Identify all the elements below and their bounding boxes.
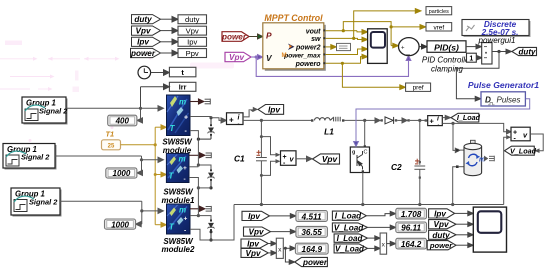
display 4.511 xyxy=(296,211,328,222)
wire v to Vpv goto xyxy=(296,156,312,161)
goto rect pref xyxy=(406,83,431,92)
svg-text:power: power xyxy=(302,258,328,267)
svg-text:V_Load: V_Load xyxy=(335,244,365,253)
svg-text:+: + xyxy=(184,115,188,122)
svg-text:Vpv: Vpv xyxy=(186,26,199,35)
wire group1c to module2 Ir xyxy=(60,201,163,227)
goto tag V_Load xyxy=(505,146,535,155)
wire V_Load to product2 xyxy=(367,246,380,251)
svg-text:pref: pref xyxy=(413,85,424,92)
goto tag Ipv xyxy=(258,105,284,115)
svg-text:Vpv: Vpv xyxy=(229,53,244,62)
svg-text:Signal 2: Signal 2 xyxy=(21,153,50,162)
goto tag Vpv xyxy=(313,154,340,164)
From tag Ipv row1 xyxy=(242,211,270,220)
wire duty to scope2 xyxy=(456,233,473,238)
voltage measurement VM1 xyxy=(260,135,281,177)
signal builder Group1 c xyxy=(11,188,62,217)
From tag I_Load row1 xyxy=(332,211,366,220)
svg-text:clamping: clamping xyxy=(431,65,464,74)
svg-text:Ipv: Ipv xyxy=(247,240,259,249)
svg-text:C: C xyxy=(364,150,368,156)
display 1.708 xyxy=(396,208,427,219)
svg-text:_: _ xyxy=(405,49,410,56)
svg-text:PID(s): PID(s) xyxy=(434,42,459,52)
svg-text:Irr: Irr xyxy=(179,83,187,92)
wire i2 to I_Load goto xyxy=(442,115,450,119)
scope block top xyxy=(368,29,388,64)
svg-text:-: - xyxy=(438,122,440,128)
svg-text:module2: module2 xyxy=(162,245,195,254)
wire Vpv to workspace xyxy=(161,28,179,34)
svg-text:Vpv: Vpv xyxy=(433,220,448,229)
display 400 xyxy=(108,115,137,126)
display 96.11 xyxy=(396,222,427,233)
battery m terminator xyxy=(485,156,495,162)
wire group1a to module Ir xyxy=(66,106,164,123)
svg-text:power: power xyxy=(429,241,453,250)
bypass diode D1 xyxy=(197,118,215,141)
bypass diode D3 xyxy=(208,220,215,242)
wire v2 to V_Load goto xyxy=(530,134,543,153)
display 1000 a xyxy=(106,168,137,178)
svg-text:Pulse Generator1: Pulse Generator1 xyxy=(468,80,539,90)
svg-text:Ipv: Ipv xyxy=(187,38,197,47)
svg-text:Vpv: Vpv xyxy=(245,249,260,258)
display 1000 b xyxy=(105,219,136,229)
wire PID to switch xyxy=(466,44,482,49)
From tag duty xyxy=(132,15,161,24)
To Workspace Vpv xyxy=(178,26,207,35)
svg-text:M: M xyxy=(282,52,287,59)
From tag power scope row4 xyxy=(427,241,456,250)
battery block xyxy=(456,140,485,175)
svg-text:Ipv: Ipv xyxy=(137,38,149,47)
svg-text:164.9: 164.9 xyxy=(302,245,323,254)
power2 sink block xyxy=(337,43,351,50)
wire I_Load to product2 xyxy=(367,236,380,241)
svg-text:V_Load: V_Load xyxy=(334,223,365,232)
PV module SW85W module1 xyxy=(166,153,189,183)
olive wire power2 to terminator block xyxy=(325,45,336,50)
From tag Ipv scope row1 xyxy=(429,209,455,218)
block t xyxy=(169,67,196,77)
wire sum to PID xyxy=(419,44,427,49)
wire i out to Ipv goto xyxy=(243,107,258,117)
To Workspace Ppv xyxy=(178,49,207,58)
From tag V_Load row2 xyxy=(332,223,367,232)
switch block xyxy=(482,43,492,64)
wire product2 to display 164.2 xyxy=(387,241,396,246)
svg-text:I_Load: I_Load xyxy=(335,212,362,221)
svg-text:duty: duty xyxy=(185,15,200,24)
constant 1 block xyxy=(467,53,477,62)
PV module SW85W module2 xyxy=(167,204,191,235)
svg-text:Pulses: Pulses xyxy=(496,95,520,104)
svg-text:-: - xyxy=(184,176,186,183)
wire L1 to diode xyxy=(344,118,383,123)
From tag power (dark red) xyxy=(222,32,249,42)
svg-text:I_Load: I_Load xyxy=(457,113,481,122)
voltage measurement VM2 xyxy=(511,127,530,142)
svg-text:module1: module1 xyxy=(162,196,195,205)
powergui block xyxy=(462,20,531,38)
From tag V_Load row4 xyxy=(334,244,367,253)
From tag Vpv scope row2 xyxy=(429,220,456,229)
svg-text:MPPT Control: MPPT Control xyxy=(264,13,323,23)
constant block 25 xyxy=(102,140,121,150)
svg-text:4.511: 4.511 xyxy=(301,212,322,221)
svg-text:25: 25 xyxy=(108,143,115,149)
svg-text:Ipv: Ipv xyxy=(434,209,446,218)
svg-text:Signal 2: Signal 2 xyxy=(29,198,58,207)
goto rect particles xyxy=(426,7,452,15)
faint print artifacts (pink ghost wires) xyxy=(0,41,234,143)
svg-text:g: g xyxy=(352,150,355,156)
svg-text:1000: 1000 xyxy=(113,169,131,178)
svg-text:400: 400 xyxy=(115,117,130,126)
svg-text:1000: 1000 xyxy=(111,220,129,229)
svg-text:particles: particles xyxy=(429,9,449,15)
wire power to workspace xyxy=(161,50,179,56)
wire m2 to terminator xyxy=(189,153,205,158)
From tag power xyxy=(131,48,161,57)
wire Vpv to V (purple) xyxy=(251,55,263,60)
svg-text:vout: vout xyxy=(306,28,321,35)
svg-text:vref: vref xyxy=(433,24,444,31)
wire CM2 out to battery and V2 xyxy=(442,122,511,153)
wire to Irr xyxy=(141,84,170,108)
svg-text:P: P xyxy=(266,31,272,41)
svg-text:I_Load: I_Load xyxy=(337,234,364,243)
wire Vpv to scope2 xyxy=(456,222,473,227)
capacitor C2 xyxy=(414,120,425,204)
svg-text:1: 1 xyxy=(469,56,473,63)
inductor L1 xyxy=(311,117,344,122)
svg-text:Signal 2: Signal 2 xyxy=(39,107,68,116)
display 164.9 xyxy=(295,243,328,254)
svg-text:Ppv: Ppv xyxy=(186,49,199,58)
svg-text:PID Controller: PID Controller xyxy=(422,56,473,65)
svg-text:Ipv: Ipv xyxy=(268,104,281,114)
goto tag I_Load xyxy=(451,113,479,122)
wire IGBT emitter to bottom rail xyxy=(362,173,364,205)
goto tag duty xyxy=(512,47,537,55)
PID controller block xyxy=(427,41,466,53)
signal builder Group1 b xyxy=(3,144,57,170)
svg-text:+: + xyxy=(430,117,435,126)
svg-text:96.11: 96.11 xyxy=(401,224,421,233)
olive wire sw to scope and particles xyxy=(325,9,421,42)
clock block xyxy=(138,66,151,79)
From tag Vpv row4 xyxy=(241,248,268,257)
svg-text:36.55: 36.55 xyxy=(301,228,322,237)
svg-text:duty: duty xyxy=(134,15,152,24)
pulse gate wire (purple) xyxy=(354,99,530,147)
wire group1b to module1 Ir xyxy=(55,156,163,176)
wire top rail to IGBT collector xyxy=(364,120,366,145)
terminator m1 xyxy=(205,99,211,105)
PV module SW85W module xyxy=(167,95,191,136)
wire module1 plus to sensor xyxy=(190,116,227,123)
wire module3 minus to bottom rail xyxy=(190,205,234,241)
feedback wire duty to pulse gen D xyxy=(456,52,499,102)
pulse generator block xyxy=(481,92,525,106)
From tag Vpv row2 xyxy=(244,227,271,236)
product block PV power xyxy=(276,238,283,258)
wire Ipv to workspace xyxy=(161,39,179,45)
svg-text:+: + xyxy=(184,216,188,223)
svg-text:duty: duty xyxy=(519,47,536,56)
From tag duty scope row3 xyxy=(429,230,456,239)
svg-text:power_max: power_max xyxy=(283,52,321,59)
current measurement CM2 xyxy=(425,119,428,121)
capacitor C1 xyxy=(256,120,267,204)
svg-text:m: m xyxy=(179,206,186,215)
wire const1 to switch xyxy=(476,55,482,60)
wire Vpv to display 36.55 xyxy=(271,229,296,234)
current measurement CM1 xyxy=(227,113,244,128)
wire VM2 minus to bottom rail xyxy=(504,135,511,205)
signal builder Group1 a xyxy=(22,97,68,125)
wire module2 plus node xyxy=(189,163,211,169)
svg-text:power: power xyxy=(130,49,156,58)
From tag I_Load row3 xyxy=(334,234,367,242)
bypass diode D2 xyxy=(208,169,215,189)
scope block bottom right xyxy=(473,207,506,252)
svg-text:+: + xyxy=(229,115,234,124)
From tag Vpv (magenta) xyxy=(225,52,251,61)
To Workspace duty xyxy=(178,15,207,24)
product block load power xyxy=(380,233,387,254)
wire battery minus to bottom rail xyxy=(453,167,456,205)
From tag Vpv xyxy=(132,26,161,35)
svg-text:1.708: 1.708 xyxy=(401,210,422,219)
display 36.55 xyxy=(296,226,328,237)
svg-text:+: + xyxy=(401,45,405,51)
svg-text:power2: power2 xyxy=(295,45,321,52)
wire Ipv to product xyxy=(268,241,276,246)
svg-text:duty: duty xyxy=(432,231,450,240)
wire I_Load to display 1.708 xyxy=(366,211,396,216)
block Irr xyxy=(169,82,196,91)
svg-text:Ipv: Ipv xyxy=(248,212,260,221)
wire m3 to terminator xyxy=(190,206,205,211)
diode Db xyxy=(385,117,394,124)
To Workspace Ipv xyxy=(178,37,207,46)
wire product to display 164.9 and power goto xyxy=(283,246,295,264)
svg-text:-: - xyxy=(184,228,186,235)
purple wire Vpv branch to sum xyxy=(256,56,411,77)
svg-text:Vpv: Vpv xyxy=(135,26,150,35)
goto tag power (bottom) xyxy=(295,257,328,266)
svg-text:powero: powero xyxy=(295,61,322,68)
svg-text:C1: C1 xyxy=(234,154,245,164)
svg-text:+: + xyxy=(183,165,187,172)
wire module1 minus chain xyxy=(190,131,198,165)
wire module2 minus chain xyxy=(189,178,211,216)
bottom rail xyxy=(234,203,504,206)
svg-text:L1: L1 xyxy=(324,127,334,137)
wire Ipv to scope2 xyxy=(455,211,474,216)
sum block xyxy=(399,38,420,56)
olive wire powero to scope and pref xyxy=(325,54,405,89)
wire duty to workspace xyxy=(161,16,179,22)
wire module3 plus node xyxy=(190,214,211,220)
terminator m3 xyxy=(206,206,212,212)
terminator m2 xyxy=(206,152,212,158)
wire power to scope2 xyxy=(456,243,473,248)
svg-text:C2: C2 xyxy=(391,162,402,172)
svg-text:T1: T1 xyxy=(106,130,115,139)
wire main rail CM1 to L1 xyxy=(243,119,311,122)
olive wire power max to scope xyxy=(325,47,367,55)
MPPT Control subsystem xyxy=(263,13,326,71)
wire switch to duty goto xyxy=(492,49,512,54)
wire V_Load to display 96.11 xyxy=(367,225,395,230)
wire clock to t xyxy=(151,70,170,76)
From tag Ipv xyxy=(132,37,161,46)
svg-text:m: m xyxy=(179,98,186,107)
olive wire vout to scope and vref and sum xyxy=(325,22,425,48)
svg-text:Vpv: Vpv xyxy=(248,228,263,237)
svg-text:V_Load: V_Load xyxy=(510,146,537,155)
svg-text:-: - xyxy=(238,122,240,128)
From tag Ipv row3 xyxy=(241,239,268,248)
wire power to P xyxy=(249,34,263,39)
svg-text:power: power xyxy=(221,33,247,42)
svg-text:m: m xyxy=(179,155,186,164)
wire diode to C2 node xyxy=(395,118,425,123)
svg-text:164.2: 164.2 xyxy=(401,240,422,249)
svg-text:sw: sw xyxy=(311,36,321,43)
wire m1 to terminator xyxy=(190,99,204,104)
wire Vpv to product xyxy=(268,251,276,256)
wire Ipv to display 4.511 xyxy=(270,214,296,219)
display 164.2 xyxy=(396,238,427,249)
svg-text:Vpv: Vpv xyxy=(322,154,339,164)
T wire bus (orange) xyxy=(121,125,167,227)
C1 polarity mark xyxy=(257,150,262,155)
IGBT switch block xyxy=(350,145,369,172)
C2 polarity mark xyxy=(415,159,419,164)
goto rect vref xyxy=(426,23,452,32)
svg-text:powergui1: powergui1 xyxy=(478,36,516,45)
